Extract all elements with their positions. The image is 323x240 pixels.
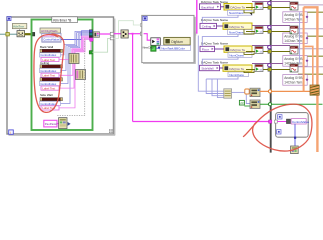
svg-text:14Chan Temp: 14Chan Temp [284,80,304,84]
wire orange from timing1 [260,90,310,92]
iteration terminal i [9,130,14,135]
svg-text:DAQmx Ta: DAQmx Ta [230,48,245,52]
svg-text:ControlValue: ControlValue [292,120,309,124]
output glyph [68,122,71,126]
green tunnel lower [89,51,92,54]
svg-text:Ceiling: Ceiling [40,61,50,65]
row3 constant Floor [200,46,215,51]
svg-text:Analog I0 9B,: Analog I0 9B, [284,34,303,38]
row1 constant BackWall [200,4,221,10]
row2 olive wire [246,31,290,33]
S1 top-left event icon [7,17,11,21]
svg-text:NumChans: NumChans [229,11,244,15]
start task icons (4) [255,3,263,72]
bottom subVI icon [59,118,67,129]
boolean constant green [151,46,156,51]
wire pale green route [92,38,110,52]
wire magenta main [99,0,268,122]
svg-text:SideWall: SideWall [201,67,213,71]
wire blue bundle from ControlIndex boxes [61,31,90,103]
wire thick olive into frame [25,32,35,36]
svg-text:ControlIndex: ControlIndex [40,82,56,86]
analog labels (4) [283,12,309,85]
svg-text:DigNum: DigNum [171,40,183,44]
red pen ellipse left [34,34,64,112]
orange hatched merge box [310,85,319,95]
svg-text:Label Text: Label Text [42,74,55,78]
green constant 23 [239,100,250,106]
green frame title box [52,17,78,23]
svg-text:14Chan Temp: 14Chan Temp [284,39,304,43]
green frame (disable structure) [32,20,93,131]
S2 unbundle icon [151,38,161,46]
frame left tunnel + wire [274,120,277,123]
svg-text:NewCntp: NewCntp [143,45,155,49]
orange tunnel ring [268,90,271,93]
svg-text:Analog I0 9B,: Analog I0 9B, [284,13,303,17]
group Floor [40,78,63,91]
wire blue down from frame [294,124,296,146]
olive tunnels squares (4) [268,6,272,72]
wire green long [260,103,323,105]
row3 numchans caption [228,53,252,58]
row2 link wires [217,25,224,27]
wire bool to caption [156,47,160,49]
while loop S2 [142,15,196,63]
svg-text:Label Text: Label Text [42,86,55,90]
svg-text:ControlIndex: ControlIndex [40,102,56,106]
wire blue ControlValues out [61,31,89,40]
green tunnel ring [268,103,271,106]
row1 link wires [221,6,225,8]
svg-text:ControlIndex: ControlIndex [40,53,56,57]
svg-text:NumTask.BBColor: NumTask.BBColor [161,47,185,51]
svg-text:All DigiNails: All DigiNails [41,29,58,33]
svg-text:Ceiling: Ceiling [202,25,212,29]
wait-ms label KilnTmr [12,24,26,32]
svg-text:23: 23 [240,101,244,105]
group Side Wall [40,93,63,110]
svg-text:DAQmx Ta: DAQmx Ta [229,25,244,29]
NumTask caption [160,46,191,51]
row2 numchans caption [228,30,253,35]
bottom-right frame [276,113,309,138]
row3 daqmx channel constant [224,46,252,52]
ControlValue box in frame [286,119,309,124]
row4 daqmx channel constant [223,65,252,71]
svg-text:Side Wall: Side Wall [40,93,53,97]
svg-text:Analog I0 9B,: Analog I0 9B, [284,57,303,61]
wire pink bundle from Label Text boxes [59,36,90,108]
wire ms input [0,33,17,36]
svg-text:DAQmx Task Name: DAQmx Task Name [201,42,228,46]
svg-text:ControlValue: ControlValue [43,38,59,42]
row3 purple wire [252,45,290,47]
bottom-right subVI icon [291,146,299,154]
svg-text:NumChans: NumChans [229,53,244,57]
row2 constant Ceiling [200,23,217,28]
DAQmx timing icon 2 [250,100,260,108]
row2 purple wire [252,25,290,27]
svg-text:PaoPastd: PaoPastd [45,122,58,126]
row1 purple wire [252,1,290,3]
group Ceiling [40,61,63,77]
svg-text:DAQmx Task Name: DAQmx Task Name [201,61,228,65]
frame top-left icon [278,115,282,119]
svg-text:Floor: Floor [202,48,209,52]
orange constant [245,89,249,94]
svg-text:BackWall: BackWall [201,5,214,9]
subVI icon B [76,70,86,80]
AI read icons (4) [290,2,298,72]
svg-text:Back Wall: Back Wall [40,45,54,49]
build array merge icon [224,89,232,98]
frame bottom-left icon [277,130,281,134]
magenta dotted stub [90,42,92,51]
wait ms metronome icon [17,31,25,37]
red pen ellipse right [244,104,312,151]
row4 olive wire [246,69,290,71]
PaoPastd constant [44,120,59,127]
while loop S1 border [7,17,115,135]
svg-text:KilnTmr: KilnTmr [13,25,23,29]
magenta tunnel square [269,120,272,123]
violet vertical right chain [299,12,301,63]
row1 numchans caption [228,10,253,15]
svg-text:DAQmx Ta: DAQmx Ta [229,67,244,71]
svg-text:DAQmx Task Name: DAQmx Task Name [201,18,228,22]
svg-text:ControlIndex: ControlIndex [40,69,56,73]
violet task chain wires [198,15,250,103]
All DigiNails header box [40,28,61,33]
svg-text:NumChans: NumChans [229,31,244,35]
bundle node right of green frame [93,32,99,38]
while loop corner resize glyph [109,129,113,133]
orange wires vertical system [304,7,318,152]
S2 interior magenta drop [144,34,151,41]
tunnels on green frame right border [89,30,93,41]
svg-text:Kiln timer *B: Kiln timer *B [53,18,72,22]
purple tunnels circles (4) [268,2,271,67]
row4 constant SideWall [200,65,220,70]
S2 top-left icon [143,16,147,20]
dashed gray route [57,39,85,116]
row4 numchans caption [228,72,249,77]
row1 daqmx channel constant [224,4,252,11]
row4 link wires [220,67,224,69]
svg-text:DAQmx Ta: DAQmx Ta [230,6,245,10]
row1 olive wire [246,7,290,9]
black structure border line [270,0,272,153]
svg-text:NumChans: NumChans [229,73,244,77]
row2 daqmx channel constant [223,23,252,29]
subVI icon A (striped) [69,54,79,64]
row4 purple wire [252,63,290,65]
row3 olive wire [246,51,290,53]
DigNum local variable [164,37,190,45]
DAQmx timing icon 1 [250,88,260,96]
ControlValues cluster box [42,33,61,42]
row3 link wires [215,48,225,50]
group Back Wall [40,45,63,62]
svg-text:14Chan Temp: 14Chan Temp [284,18,304,22]
typecast icon between loops [121,30,128,38]
svg-text:Analog I0 9B,: Analog I0 9B, [284,76,303,80]
